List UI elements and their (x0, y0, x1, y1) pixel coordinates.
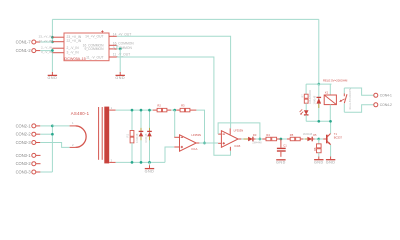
svg-text:CON2-3: CON2-3 (16, 140, 32, 145)
svg-text:CON3-1: CON3-1 (16, 153, 32, 158)
svg-text:ZM4448: ZM4448 (303, 133, 313, 136)
svg-text:GND: GND (326, 160, 336, 164)
svg-text:R3: R3 (181, 104, 185, 108)
svg-text:LF353N: LF353N (191, 133, 201, 137)
svg-text:IC1A: IC1A (191, 147, 197, 151)
svg-text:K1: K1 (325, 91, 329, 95)
svg-text:22_+V_IN: 22_+V_IN (39, 39, 52, 43)
svg-text:CON2-2: CON2-2 (16, 132, 32, 137)
svg-text:R1: R1 (126, 133, 130, 137)
svg-text:R6: R6 (313, 147, 317, 151)
svg-text:AS480-1: AS480-1 (71, 111, 90, 116)
svg-text:GND: GND (48, 76, 58, 80)
svg-text:3_-V_IN: 3_-V_IN (41, 50, 52, 54)
svg-text:C1: C1 (283, 143, 287, 147)
svg-text:DCW05A-15: DCW05A-15 (64, 57, 85, 61)
svg-text:ZM4448: ZM4448 (252, 142, 262, 145)
svg-text:22_+V_IN: 22_+V_IN (67, 39, 82, 43)
svg-text:CON1-7: CON1-7 (16, 39, 32, 44)
svg-text:RELE 5V=200OHM: RELE 5V=200OHM (323, 79, 348, 83)
svg-text:1N4148: 1N4148 (144, 133, 148, 143)
svg-text:R2: R2 (157, 104, 161, 108)
svg-text:IC1B: IC1B (234, 144, 240, 148)
svg-text:CON1-2: CON1-2 (16, 48, 32, 53)
svg-text:CON4-2: CON4-2 (380, 103, 392, 107)
svg-text:11_-V_OUT: 11_-V_OUT (86, 55, 103, 59)
svg-text:D3: D3 (253, 133, 257, 137)
svg-text:CON3-3: CON3-3 (16, 169, 32, 174)
svg-text:3_-V_IN: 3_-V_IN (67, 51, 80, 55)
svg-text:R5: R5 (290, 133, 294, 137)
svg-text:LF353N: LF353N (234, 128, 244, 132)
svg-text:GND: GND (314, 160, 324, 164)
svg-text:2_-V_IN: 2_-V_IN (41, 46, 52, 50)
svg-text:1N4148: 1N4148 (135, 133, 139, 143)
svg-text:9_COMMON: 9_COMMON (113, 46, 133, 50)
svg-text:2_-V_IN: 2_-V_IN (67, 46, 80, 50)
svg-text:CON3-2: CON3-2 (16, 161, 32, 166)
svg-text:14_+V_OUT: 14_+V_OUT (85, 34, 103, 38)
svg-text:11_-V_OUT: 11_-V_OUT (113, 53, 130, 57)
svg-text:CON4-1: CON4-1 (380, 94, 392, 98)
svg-text:RELE-5V=200OHM: RELE-5V=200OHM (349, 88, 352, 110)
svg-text:CON2-1: CON2-1 (16, 123, 32, 128)
svg-text:9_COMMON: 9_COMMON (84, 47, 104, 51)
svg-text:GRUEN5MM: GRUEN5MM (309, 90, 312, 104)
svg-text:1N4148: 1N4148 (314, 95, 317, 104)
svg-text:16_COMMON: 16_COMMON (113, 42, 135, 46)
svg-text:R4: R4 (266, 133, 270, 137)
svg-text:GND: GND (115, 76, 125, 80)
svg-text:BC337: BC337 (334, 136, 343, 140)
svg-text:GND: GND (276, 161, 286, 165)
svg-text:GND: GND (145, 169, 155, 173)
svg-text:23_+V_IN: 23_+V_IN (39, 35, 52, 39)
